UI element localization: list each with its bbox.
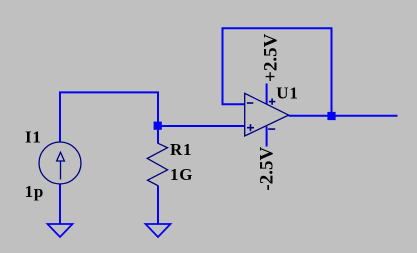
output wire — [289, 115, 398, 117]
svg-text:+2.5V: +2.5V — [261, 33, 282, 82]
current source I1 arrow — [57, 152, 65, 179]
wire from I1 top up and right to node above R1 — [60, 92, 158, 142]
wire node down to resistor R1 top — [157, 126, 159, 144]
svg-text:I1: I1 — [25, 128, 42, 147]
svg-text:R1: R1 — [170, 140, 192, 159]
op-amp V+ marker — [269, 98, 275, 104]
node junction at op-amp output — [327, 112, 335, 120]
node junction at R1 top — [154, 122, 162, 130]
op-amp non-inverting input marker — [247, 124, 254, 131]
feedback wire: output up, across top, down to inverting input — [223, 28, 332, 116]
wire node to op-amp non-inverting input — [157, 125, 245, 127]
wire op-amp V- power stub — [266, 127, 268, 147]
op-amp V- marker — [268, 128, 275, 130]
op-amp inverting input marker — [247, 102, 253, 104]
current source I1 circle — [39, 142, 81, 184]
wire resistor R1 bottom to ground — [157, 186, 159, 225]
svg-text:U1: U1 — [276, 83, 298, 102]
svg-text:-2.5V: -2.5V — [256, 147, 277, 191]
svg-text:1G: 1G — [170, 165, 193, 184]
ground under I1 — [48, 224, 73, 237]
op-amp U1 triangle — [245, 93, 289, 136]
wire I1 bottom to ground — [59, 184, 61, 224]
resistor R1 zigzag — [147, 143, 167, 185]
svg-text:1p: 1p — [25, 182, 44, 201]
ground under R1 — [146, 224, 171, 237]
wire op-amp V+ power stub — [266, 84, 268, 105]
